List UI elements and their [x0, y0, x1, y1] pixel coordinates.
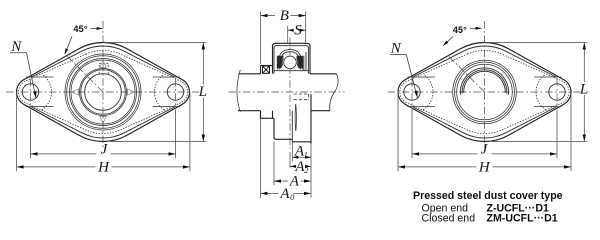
right view vertical centerline — [484, 21, 486, 148]
right view cover circles — [453, 60, 517, 124]
right view: closed end ZM-UCFL flange unit front view — [388, 21, 589, 175]
svg-text:45°: 45° — [453, 25, 467, 35]
svg-text:L: L — [579, 82, 588, 98]
left view bolt hole right — [167, 84, 183, 100]
cover bottom edge — [292, 141, 311, 143]
dimension B: dimension line and arrows — [261, 15, 276, 17]
left view dotted bolt boss arcs — [42, 74, 52, 109]
dimension H left: dimension line and arrows — [17, 166, 96, 168]
left view crimp tab triangles N E S W — [100, 61, 106, 68]
dimension L left: extension lines — [105, 42, 207, 44]
A dims extension lines — [260, 118, 262, 197]
right view bolt hole left — [404, 84, 420, 100]
dimension J left: dimension line and arrows — [31, 153, 97, 155]
left view housing crimp circles r38/36.3/33.5/32 — [65, 54, 141, 130]
inner ring collar above shaft — [261, 65, 273, 67]
left view flange outline oval — [16, 42, 189, 141]
right view hidden back profile dotted oval — [400, 50, 569, 133]
bearing ball — [283, 55, 298, 70]
cover pressed seam lens — [295, 104, 296, 131]
right view bolt hole right — [549, 84, 565, 100]
left view: open end Z-UCFL flange unit front view — [6, 21, 207, 175]
right view bolt centerline right — [556, 79, 558, 106]
dimension J right: dimension line and arrows — [412, 153, 478, 155]
left view horizontal centerline — [6, 91, 199, 93]
set screw cross-section square — [263, 66, 270, 73]
svg-text:B: B — [280, 8, 289, 24]
outer ring dome arch outer — [278, 50, 302, 70]
collar below shaft — [260, 111, 262, 119]
shaft right break line — [330, 74, 338, 111]
bearing seal line above shaft — [274, 70, 308, 72]
svg-text:S: S — [294, 22, 302, 38]
shaft left break line — [237, 70, 240, 112]
dimension H left: extension lines — [16, 92, 18, 171]
svg-text:A: A — [289, 174, 300, 190]
left view bolt centerline right — [175, 79, 177, 106]
dimension J left: extension lines — [30, 110, 32, 159]
inner ring hatched section right — [268, 52, 336, 72]
svg-text:Closed end: Closed end — [422, 213, 476, 225]
svg-text:H: H — [478, 159, 491, 175]
cover joint edge lower — [291, 111, 293, 142]
cover right face — [310, 94, 312, 144]
dimension L left: dimension line and arrows — [202, 43, 204, 85]
dimension S: dimension line and arrows — [288, 29, 294, 31]
shaft centerline — [229, 91, 345, 93]
dimension A1 line and arrows — [292, 156, 311, 158]
dimension A0 line and arrows — [261, 192, 279, 194]
dimension L right: dimension line and arrows — [583, 43, 585, 83]
svg-text:ZM-UCFL···D1: ZM-UCFL···D1 — [487, 213, 558, 225]
left view bolt boss edge lines — [26, 76, 54, 78]
dimension A2 line and arrows — [290, 165, 295, 167]
svg-text:A: A — [279, 186, 290, 202]
outer ring dome arch inner — [280, 52, 300, 70]
left view 45-degree dashed diagonal — [67, 56, 104, 93]
dimension L right: extension lines — [486, 42, 587, 44]
svg-text:45°: 45° — [73, 24, 87, 34]
left view set screw hidden rectangle — [99, 64, 108, 74]
svg-text:H: H — [97, 159, 110, 175]
left view shaft/bore circle — [85, 74, 122, 111]
right view bolt boss edge lines — [408, 76, 436, 78]
dimension J right: extension lines — [411, 110, 413, 159]
left view cover rim arcs and trimmed tangents — [31, 46, 174, 138]
inner ring hatched section left — [248, 52, 316, 72]
svg-text:Pressed steel dust cover type: Pressed steel dust cover type — [413, 190, 563, 202]
dimension B: extension lines — [260, 12, 262, 65]
left view vertical centerline — [102, 21, 104, 148]
svg-text:J: J — [481, 142, 489, 158]
right view horizontal centerline — [388, 91, 581, 93]
dimension A line and arrows — [274, 180, 288, 182]
right view dome arc band — [461, 68, 509, 95]
inner ring right face lines — [303, 56, 305, 71]
right view 45-degree dashed diagonal — [448, 56, 485, 93]
caption: pressed steel dust cover type table — [413, 190, 563, 224]
dimension S: extension line — [287, 26, 289, 43]
dimension H right: dimension line and arrows — [398, 166, 477, 168]
svg-text:2: 2 — [304, 165, 309, 175]
flange plate lower part — [274, 118, 292, 139]
svg-text:L: L — [198, 84, 207, 100]
bearing housing box inner wall — [274, 46, 308, 74]
shaft top edge — [239, 73, 261, 75]
bearing vertical centerline — [289, 38, 291, 149]
svg-text:J: J — [101, 142, 109, 158]
left view inner ring circles — [80, 69, 127, 116]
cover hidden edges behind shaft — [294, 93, 309, 95]
middle view: side cross-section on shaft — [229, 8, 345, 202]
right view dotted bolt boss arcs — [423, 74, 433, 109]
left view bolt hole left — [22, 84, 38, 100]
svg-text:0: 0 — [290, 192, 295, 202]
left view hidden back profile dotted oval — [18, 50, 187, 133]
left view bolt centerline left — [30, 79, 32, 106]
right view flange outline oval — [398, 42, 571, 141]
right view bolt centerline left — [411, 79, 413, 106]
dimension H right: extension lines — [397, 92, 399, 171]
right view cover rim arcs and trimmed tangents — [413, 46, 556, 138]
shaft bottom edge — [238, 110, 261, 112]
bearing housing box outer — [273, 43, 311, 74]
